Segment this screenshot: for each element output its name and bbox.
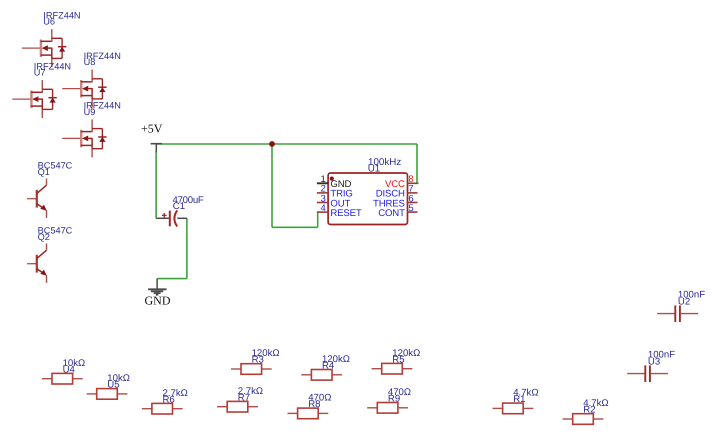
U8 source-diode tee bbox=[92, 98, 102, 100]
R1 left lead bbox=[493, 407, 503, 409]
U6 body arrow bbox=[42, 45, 48, 51]
R6 right lead bbox=[173, 408, 183, 410]
resistor U4 (10kohm) bbox=[42, 358, 85, 384]
U8 source vertical bbox=[91, 88, 93, 99]
ground symbol GND bbox=[145, 279, 171, 308]
U8 drain pin bbox=[91, 70, 93, 83]
R2 body bbox=[573, 414, 594, 425]
U8 drain stub bbox=[81, 81, 92, 83]
U5 body bbox=[97, 389, 118, 400]
U7 source-diode tee bbox=[42, 108, 52, 110]
C1 right lead bbox=[177, 217, 187, 219]
U8 drain-diode tee bbox=[92, 78, 102, 80]
svg-text:C1: C1 bbox=[173, 201, 185, 212]
Q1 base pin bbox=[27, 198, 37, 200]
R8 left lead bbox=[288, 412, 298, 414]
R9 body bbox=[377, 403, 398, 414]
wire horizontal to below U1 bbox=[272, 226, 318, 228]
U9 gate pin bbox=[62, 137, 80, 139]
R2 right lead bbox=[593, 418, 603, 420]
R1 body bbox=[503, 403, 524, 414]
U9 source stub bbox=[81, 144, 92, 146]
C1 right curved plate bbox=[174, 210, 177, 226]
U8 gate pin bbox=[62, 88, 80, 90]
wire vertical up to U1 RESET pin 4 bbox=[317, 212, 319, 227]
C1 left lead bbox=[156, 217, 169, 219]
U9 source-diode tee bbox=[92, 148, 102, 150]
transistor Q1 (BC547C NPN) bbox=[27, 161, 73, 218]
U4 right lead bbox=[73, 378, 83, 380]
C1 plus sign bbox=[162, 214, 167, 216]
U1 pin 3 (OUT) bbox=[317, 202, 328, 204]
R2 left lead bbox=[563, 418, 573, 420]
U4 left lead bbox=[42, 378, 52, 380]
svg-text:+5V: +5V bbox=[141, 122, 163, 136]
U7 channel plate bbox=[30, 91, 32, 109]
svg-text:4: 4 bbox=[321, 203, 326, 214]
Q2 base bar bbox=[36, 255, 38, 273]
U6 channel plate bbox=[40, 40, 42, 58]
wire C1 right down bbox=[186, 218, 188, 278]
U8 source pin bbox=[91, 99, 93, 108]
junction dot on +5V rail bbox=[269, 141, 275, 147]
Q1 collector bbox=[37, 185, 47, 194]
Q2 emitter with arrow bbox=[37, 269, 46, 275]
Q2 base pin bbox=[27, 263, 37, 265]
R3 left lead bbox=[231, 368, 241, 370]
U6 source-diode tee bbox=[52, 57, 62, 59]
U7 drain pin bbox=[41, 80, 43, 93]
C1 left plate bbox=[169, 211, 171, 227]
resistor R2 (4.7kohm) bbox=[563, 398, 609, 424]
U1 pin 2 (TRIG) bbox=[317, 192, 328, 194]
transistor U7 (IRFZ44N N-MOSFET) bbox=[12, 61, 71, 118]
U9 body arrow bbox=[82, 136, 88, 142]
resistor R1 (4.7kohm) bbox=[493, 388, 539, 414]
svg-text:U9: U9 bbox=[84, 107, 96, 117]
U6 source stub bbox=[41, 54, 52, 56]
U7 source stub bbox=[31, 105, 42, 107]
capacitor U2 (100nF) bbox=[657, 290, 705, 322]
U4 body bbox=[52, 373, 73, 384]
U2 right lead bbox=[681, 313, 698, 315]
U8 channel plate bbox=[80, 80, 82, 98]
svg-text:GND: GND bbox=[145, 293, 171, 307]
wire +5V down to C1 left bbox=[155, 152, 157, 219]
U8 source stub bbox=[81, 95, 92, 97]
resistor R6 (2.7kohm) bbox=[142, 388, 188, 414]
U5 left lead bbox=[87, 393, 97, 395]
U6 drain-diode tee bbox=[52, 37, 62, 39]
resistor R3 (120kohm) bbox=[231, 348, 280, 374]
Q1 emitter with arrow bbox=[37, 204, 46, 210]
U7 drain-diode tee bbox=[42, 88, 52, 90]
U1 pin 5 (CONT) bbox=[408, 211, 418, 213]
transistor Q2 (BC547C NPN) bbox=[27, 226, 73, 283]
resistor U5 (10kohm) bbox=[87, 373, 130, 399]
resistor R4 (120kohm) bbox=[301, 354, 350, 380]
U9 body diode bbox=[101, 129, 103, 149]
R8 right lead bbox=[318, 412, 328, 414]
U3 plates bbox=[644, 365, 646, 382]
R5 body bbox=[382, 363, 403, 374]
resistor R8 (470ohm) bbox=[288, 393, 332, 419]
svg-text:5: 5 bbox=[408, 203, 413, 214]
R3 right lead bbox=[262, 368, 272, 370]
R4 right lead bbox=[332, 374, 342, 376]
R1 right lead bbox=[523, 407, 533, 409]
R7 right lead bbox=[248, 406, 258, 408]
svg-text:RESET: RESET bbox=[330, 208, 362, 219]
U1 pin 1 marker dot bbox=[330, 177, 334, 181]
U7 source vertical bbox=[41, 99, 43, 110]
svg-text:Q1: Q1 bbox=[38, 167, 50, 177]
U3 right lead bbox=[651, 373, 668, 375]
R9 left lead bbox=[367, 407, 377, 409]
U8 body diode bbox=[101, 79, 103, 99]
svg-text:U6: U6 bbox=[43, 17, 55, 27]
transistor U6 (IRFZ44N N-MOSFET) bbox=[22, 10, 81, 67]
capacitor U3 (100nF) bbox=[627, 350, 675, 382]
U7 body arrow bbox=[32, 96, 38, 102]
U7 source pin bbox=[41, 109, 43, 118]
transistor U8 (IRFZ44N N-MOSFET) bbox=[62, 51, 121, 108]
U6 drain stub bbox=[41, 40, 52, 42]
U1 pin 4 (RESET) bbox=[317, 211, 328, 213]
svg-text:CONT: CONT bbox=[378, 208, 405, 219]
U1 body bbox=[328, 173, 407, 225]
U6 source pin bbox=[51, 58, 53, 67]
Q2 collector bbox=[37, 250, 47, 259]
power symbol +5V bbox=[141, 122, 163, 153]
R5 right lead bbox=[402, 368, 412, 370]
U2 plates bbox=[674, 305, 676, 322]
U9 source pin bbox=[91, 149, 93, 158]
U6 body diode bbox=[61, 38, 63, 58]
U1 pin 7 (DISCH) bbox=[408, 192, 418, 194]
wire bottom to GND bbox=[157, 278, 187, 280]
U1 pin 1 (GND) bbox=[317, 182, 328, 184]
U1 pin 8 (VCC) bbox=[408, 182, 418, 184]
U5 right lead bbox=[117, 393, 127, 395]
U9 drain stub bbox=[81, 131, 92, 133]
U1 pin 6 (THRES) bbox=[408, 202, 418, 204]
R5 left lead bbox=[372, 368, 382, 370]
R3 body bbox=[241, 364, 262, 375]
op-amp/timer U1 (555, 100kHz) bbox=[317, 157, 418, 224]
R7 left lead bbox=[217, 406, 227, 408]
U2 left lead bbox=[657, 313, 674, 315]
U7 drain stub bbox=[31, 91, 42, 93]
U6 gate pin bbox=[22, 47, 40, 49]
R6 body bbox=[152, 403, 173, 414]
R8 body bbox=[298, 408, 319, 419]
U3 left lead bbox=[627, 373, 644, 375]
U6 source vertical bbox=[51, 48, 53, 59]
svg-text:Q2: Q2 bbox=[38, 232, 50, 242]
wire junction branch down from +5V rail bbox=[271, 144, 273, 227]
R4 left lead bbox=[301, 374, 311, 376]
U6 drain pin bbox=[51, 29, 53, 42]
wire +5V rail horizontal to U1 pin 8 bbox=[156, 143, 417, 145]
U9 drain pin bbox=[91, 119, 93, 132]
U9 channel plate bbox=[80, 130, 82, 148]
wire vertical down to U1 VCC pin 8 bbox=[416, 144, 418, 183]
transistor U9 (IRFZ44N N-MOSFET) bbox=[62, 101, 121, 158]
svg-text:U8: U8 bbox=[84, 57, 96, 67]
Q1 base bar bbox=[36, 190, 38, 208]
svg-text:U7: U7 bbox=[34, 68, 46, 78]
capacitor C1 (4700uF polarized) bbox=[156, 195, 204, 226]
resistor R7 (2.7kohm) bbox=[217, 386, 263, 412]
R6 left lead bbox=[142, 408, 152, 410]
R4 body bbox=[311, 370, 332, 381]
R9 right lead bbox=[398, 407, 408, 409]
resistor R5 (120kohm) bbox=[372, 348, 421, 374]
U7 body diode bbox=[52, 89, 54, 109]
R7 body bbox=[227, 401, 248, 412]
U9 drain-diode tee bbox=[92, 128, 102, 130]
U8 body arrow bbox=[82, 86, 88, 92]
U7 gate pin bbox=[12, 98, 30, 100]
U9 source vertical bbox=[91, 138, 93, 149]
resistor R9 (470ohm) bbox=[367, 387, 411, 413]
